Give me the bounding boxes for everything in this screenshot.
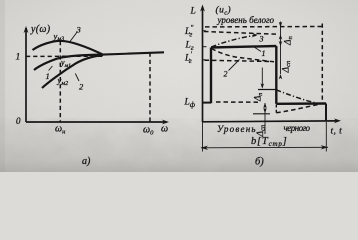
curve 3' after pulse dash-dot xyxy=(276,90,319,104)
L axis xyxy=(202,7,204,122)
short line level B2 xyxy=(253,113,270,115)
x-axis arrowhead xyxy=(162,120,169,125)
leader to label 2 xyxy=(229,60,240,71)
svg-text:черного: черного xyxy=(284,123,311,133)
arrow up at L''g xyxy=(279,34,283,39)
svg-text:Lф: Lф xyxy=(184,98,196,110)
bottom dimension line xyxy=(201,146,328,149)
curve 3 arrowhead xyxy=(252,33,258,38)
vertical dashed at end of black level xyxy=(321,24,323,104)
curve 1 xyxy=(34,55,103,70)
paper background xyxy=(0,0,358,172)
svg-text:уровень белого: уровень белого xyxy=(217,15,275,25)
short line level B3 xyxy=(258,89,276,91)
L'g dashed line xyxy=(205,60,273,61)
arrow up at Lf xyxy=(263,103,267,108)
tick L''g xyxy=(203,30,207,32)
svg-text:б): б) xyxy=(255,157,264,168)
bottom dimension extension left xyxy=(202,122,204,152)
arrow down at line B2 xyxy=(263,108,267,113)
t axis arrowhead xyxy=(334,118,341,123)
dashed vertical at omega_0 xyxy=(149,53,151,122)
curve 3 xyxy=(33,41,104,55)
curve 3 dash-dot on top xyxy=(212,35,257,47)
arrow down at pulse top xyxy=(279,41,283,46)
svg-text:Lг: Lг xyxy=(185,41,194,53)
curve 2 dashed on top xyxy=(212,49,275,62)
Lf dashed line xyxy=(216,101,260,103)
white level dashed line xyxy=(205,26,323,28)
svg-text:3: 3 xyxy=(259,35,264,44)
y-axis arrowhead xyxy=(24,26,29,33)
leader to label 1 xyxy=(49,66,53,71)
t axis xyxy=(203,120,337,123)
bottom left arrowhead xyxy=(201,146,209,150)
arrow down at white level xyxy=(279,22,283,27)
svg-text:t, t: t, t xyxy=(331,127,343,137)
leader to label 2 xyxy=(75,74,79,82)
L axis arrowhead xyxy=(200,5,205,12)
waveform left edge xyxy=(210,48,212,104)
right dimension line xyxy=(280,22,282,75)
waveform top (curve 1) xyxy=(211,46,276,48)
svg-text:1: 1 xyxy=(16,53,21,63)
leader to label 3 xyxy=(70,32,78,42)
svg-text:1: 1 xyxy=(46,71,50,81)
svg-text:0: 0 xyxy=(16,116,21,126)
curve 2 xyxy=(42,55,103,88)
bottom dimension extension right xyxy=(325,122,327,152)
curve 2' after pulse dashed xyxy=(276,105,318,113)
dashed continuation of right edge xyxy=(275,105,277,114)
tick Lg xyxy=(203,46,207,48)
bottom edge shading xyxy=(0,118,358,172)
svg-text:1: 1 xyxy=(262,49,266,58)
svg-text:L: L xyxy=(190,7,196,17)
tick L'g xyxy=(203,59,207,61)
svg-text:а): а) xyxy=(82,156,91,167)
waveform black level xyxy=(276,102,326,105)
waveform end drop xyxy=(325,104,327,121)
arrow up lower xyxy=(279,74,283,79)
svg-text:3: 3 xyxy=(76,25,81,35)
svg-text:y(ω): y(ω) xyxy=(30,24,51,35)
svg-text:2: 2 xyxy=(224,70,228,79)
dashed level-1 line xyxy=(26,55,103,57)
waveform right edge xyxy=(275,46,277,104)
dashed vertical at omega_n xyxy=(59,41,61,122)
bottom right arrowhead xyxy=(321,145,329,149)
y-axis xyxy=(25,28,27,122)
middle down arrow xyxy=(261,68,263,88)
svg-text:ω: ω xyxy=(161,124,168,135)
merged asymptote line xyxy=(103,52,164,54)
leader to label 1 xyxy=(255,47,262,51)
waveform front porch step xyxy=(203,102,212,104)
x-axis xyxy=(26,121,166,123)
middle lower dimension line xyxy=(264,103,266,134)
L''g dashed line xyxy=(204,32,276,35)
